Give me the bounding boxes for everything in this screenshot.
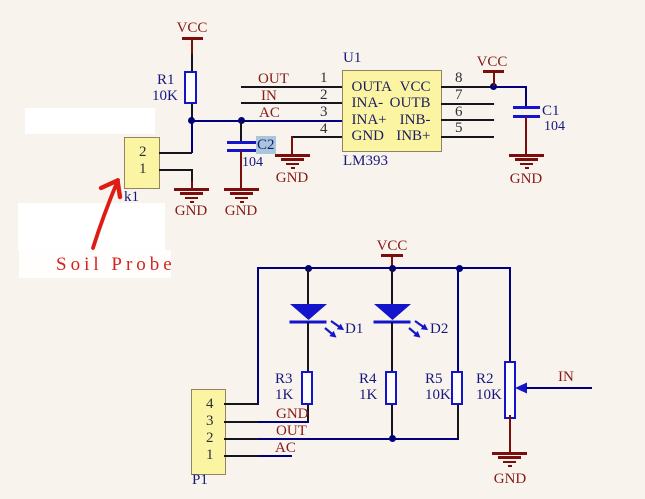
wire node A down to k1 pin2 — [191, 121, 193, 153]
resistor R3 — [301, 371, 313, 405]
node B junction (above C2) — [238, 117, 245, 124]
wire D2 to R4 — [391, 322, 393, 372]
ground GND1 (below k1 pin1) — [174, 188, 209, 191]
node pin8/VCC junction — [490, 83, 497, 90]
capacitor C1 — [525, 86, 527, 107]
potentiometer R2 — [504, 361, 516, 419]
wire left rail down to P1 pin4 — [257, 267, 259, 405]
wire right rail down to R2 — [509, 267, 511, 362]
wire node A to chip pin3 (AC net) — [190, 120, 342, 122]
ground GND2 (below C2) — [224, 188, 259, 191]
wire k1 pin2 — [159, 152, 192, 154]
wire k1 pin1 down to ground — [191, 169, 193, 181]
LED D2 — [391, 268, 393, 304]
power VCC (top right) — [477, 55, 508, 70]
wire chip pin7 — [441, 103, 494, 105]
wire IN net to chip pin2 — [241, 102, 342, 104]
connector k1 — [124, 137, 160, 189]
wire R3 bottom to GND net — [307, 405, 309, 422]
wire VCC to R1 — [191, 54, 193, 72]
Soil Probe annotation text — [56, 255, 176, 274]
red arrow pointing to k1 — [85, 170, 133, 255]
node AC label on pin3 wire — [259, 106, 280, 121]
wire OUT net to chip pin1 — [241, 86, 342, 88]
wire P1 pin4 to left rail — [224, 403, 259, 405]
wire R4 bottom to OUT net — [391, 405, 393, 439]
white patch A — [25, 108, 155, 134]
resistor R1 — [184, 71, 197, 104]
wire pin8 node to C1 — [493, 86, 527, 88]
wire chip pin5 — [441, 136, 494, 138]
wire rail to R5 — [457, 268, 459, 371]
wire R2 bottom to ground — [509, 415, 511, 452]
white patch C — [19, 250, 171, 278]
wire chip pin4 to ground — [291, 136, 342, 138]
wiper arrow of R2 — [514, 381, 530, 395]
node rail/R5 — [456, 265, 463, 272]
wire C2 bottom to ground — [240, 151, 242, 188]
ground GND5 (below R2) — [492, 452, 527, 455]
ground GND4 (below C1) — [509, 154, 544, 157]
wire P1 pin3 (GND net) — [224, 421, 258, 423]
node OUT/R4 junction — [389, 435, 396, 442]
ground GND3 (chip pin4) — [275, 154, 310, 157]
white patch B — [18, 203, 165, 250]
LED D1 — [307, 268, 309, 304]
node rail/D1 — [305, 265, 312, 272]
connector P1 — [191, 389, 226, 475]
wire R1 bottom to node A — [191, 104, 193, 120]
node A junction — [188, 117, 195, 124]
wire IN to wiper — [526, 387, 592, 389]
op-amp U1 LM393 — [342, 70, 442, 152]
wire top rail — [257, 267, 511, 269]
wire R5 bottom to OUT net — [457, 405, 459, 440]
resistor R5 — [451, 371, 463, 405]
power VCC (top, above R1) — [177, 21, 208, 36]
wire P1 pin2 (OUT net) — [224, 438, 258, 440]
power VCC (bottom) — [377, 239, 408, 254]
wire D1 to R3 — [307, 322, 309, 372]
wire k1 pin1 — [159, 169, 192, 171]
wire C1 bottom to ground — [525, 117, 527, 154]
wire chip pin8 (VCC) — [441, 86, 494, 88]
node rail/VCC/D2 — [389, 265, 396, 272]
capacitor C2 — [240, 121, 242, 142]
wire chip pin6 — [441, 119, 494, 121]
wire P1 pin1 (AC net) — [224, 455, 258, 457]
resistor R4 — [385, 371, 397, 405]
